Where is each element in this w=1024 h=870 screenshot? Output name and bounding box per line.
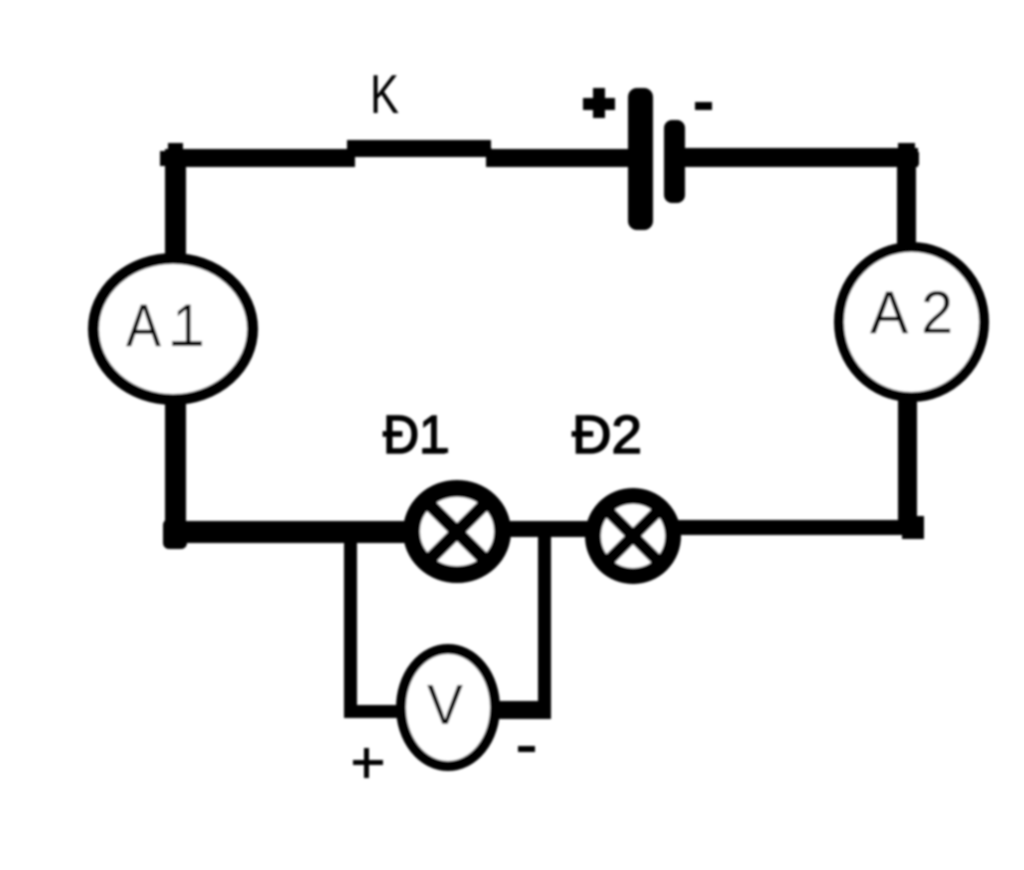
wire switch to battery bbox=[486, 149, 632, 167]
wire voltmeter branch right horizontal bbox=[492, 701, 551, 719]
label - (voltmeter) bbox=[518, 746, 535, 752]
node top-left corner junction bbox=[168, 143, 183, 152]
switch K closed-contact bar bbox=[340, 140, 497, 163]
lamp D2 bbox=[593, 496, 673, 576]
svg-text:Đ2: Đ2 bbox=[572, 405, 642, 465]
wire voltmeter branch left horizontal bbox=[344, 705, 406, 718]
wire between lamps D1 and D2 bbox=[500, 521, 600, 537]
wire top-left horizontal segment bbox=[165, 149, 355, 167]
wire battery to top-right corner bbox=[681, 148, 918, 167]
label - (battery) bbox=[695, 102, 712, 110]
wire bottom right (lamp D2 to right corner) bbox=[670, 520, 922, 535]
svg-text:A 2: A 2 bbox=[870, 279, 953, 346]
node bottom-left corner junction bbox=[163, 519, 187, 549]
svg-text:A 1: A 1 bbox=[126, 292, 202, 359]
svg-text:V: V bbox=[427, 673, 463, 737]
wire bottom left (left corner to lamp D1) bbox=[166, 521, 416, 543]
wire right vertical upper (corner to A2) bbox=[897, 150, 916, 250]
wire left vertical upper (corner to A1) bbox=[165, 150, 186, 260]
wire right vertical lower (A2 to bottom wire) bbox=[898, 395, 917, 535]
voltmeter V bbox=[401, 649, 495, 766]
wire voltmeter branch right vertical bbox=[538, 537, 551, 719]
lamp D1 bbox=[412, 489, 503, 575]
label + (voltmeter) bbox=[353, 748, 383, 778]
ammeter A1 bbox=[94, 259, 253, 400]
battery positive plate (long) bbox=[628, 88, 653, 230]
node top-right corner junction bbox=[898, 143, 915, 152]
ammeter A2 bbox=[839, 247, 984, 397]
svg-text:K: K bbox=[370, 63, 399, 125]
node bottom-right junction bbox=[902, 516, 924, 539]
svg-text:Đ1: Đ1 bbox=[383, 405, 447, 465]
wire voltmeter branch left vertical bbox=[344, 537, 357, 718]
wire left vertical lower (A1 to bottom wire) bbox=[165, 398, 186, 538]
battery negative plate (short) bbox=[664, 120, 685, 203]
label + (battery) bbox=[583, 98, 615, 110]
